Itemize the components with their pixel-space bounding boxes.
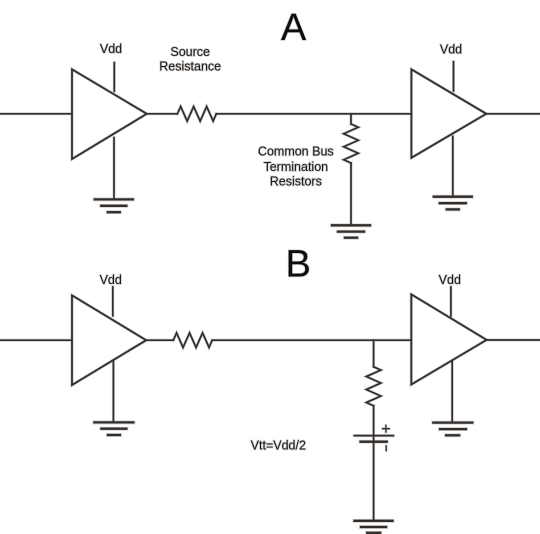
wire Vdd stub U3 xyxy=(112,287,114,316)
resistor R1 (source resistance) xyxy=(177,107,216,122)
wire Vdd stub U4 xyxy=(450,287,452,316)
ground U4 xyxy=(433,423,472,436)
wire R4 to battery xyxy=(373,406,375,442)
battery V1 (Vtt source) xyxy=(354,435,393,437)
ground U1 xyxy=(95,199,133,212)
resistor R2 (bus termination, circuit A) xyxy=(344,124,359,163)
wire U3 output xyxy=(146,339,173,341)
wire ground stub U1 xyxy=(113,138,115,200)
node A bus tap xyxy=(350,114,352,124)
svg-text:Vdd: Vdd xyxy=(100,273,122,287)
resistor R3 (series, circuit B) xyxy=(173,333,212,348)
wire ground stub U2 xyxy=(452,136,454,196)
svg-text:Vdd: Vdd xyxy=(439,273,461,287)
plus sign V1 xyxy=(383,425,390,432)
ground V1 xyxy=(355,521,393,533)
resistor R4 (termination, circuit B) xyxy=(366,367,381,406)
svg-text:B: B xyxy=(286,243,311,285)
wire bus A xyxy=(216,113,411,115)
wire output B xyxy=(487,339,540,341)
label Common Bus Termination Resistors xyxy=(258,145,334,189)
buffer U1 (left driver, circuit A) xyxy=(72,69,147,159)
svg-text:Common Bus: Common Bus xyxy=(258,145,334,159)
buffer U3 (left driver, circuit B) xyxy=(72,295,146,385)
ground U2 xyxy=(434,197,472,210)
svg-text:Vdd: Vdd xyxy=(440,43,462,57)
svg-text:Termination: Termination xyxy=(263,160,328,174)
ground R2 xyxy=(332,225,370,237)
buffer U2 (right driver, circuit A) xyxy=(411,69,486,158)
ground U3 xyxy=(94,422,133,435)
wire bus B xyxy=(212,339,411,341)
label Source Resistance xyxy=(159,45,221,74)
svg-text:Resistance: Resistance xyxy=(159,60,221,74)
svg-text:A: A xyxy=(281,7,307,49)
svg-text:Source: Source xyxy=(170,45,210,59)
wire U1 output xyxy=(147,113,178,115)
wire output A xyxy=(486,113,540,115)
wire input B xyxy=(0,339,72,341)
wire ground stub U3 xyxy=(112,361,114,423)
wire battery to ground xyxy=(373,442,375,521)
node B bus tap xyxy=(373,340,375,367)
wire input A xyxy=(0,113,72,115)
svg-text:Vtt=Vdd/2: Vtt=Vdd/2 xyxy=(251,438,306,452)
wire Vdd stub U1 xyxy=(113,63,115,92)
buffer U4 (right driver, circuit B) xyxy=(411,294,486,384)
minus tick V1 xyxy=(385,446,387,451)
wire ground stub U4 xyxy=(451,361,453,422)
svg-text:Resistors: Resistors xyxy=(270,175,322,189)
wire R2 to ground xyxy=(350,163,352,225)
wire Vdd stub U2 xyxy=(453,62,455,91)
svg-text:Vdd: Vdd xyxy=(100,42,122,56)
